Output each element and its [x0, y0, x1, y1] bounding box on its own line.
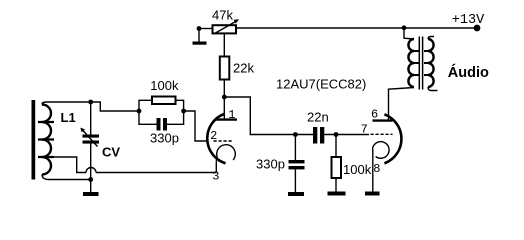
- svg-text:+13V: +13V: [452, 13, 485, 28]
- svg-text:2: 2: [210, 129, 217, 143]
- svg-text:6: 6: [371, 108, 378, 122]
- svg-text:3: 3: [212, 170, 219, 184]
- svg-text:22k: 22k: [233, 61, 254, 76]
- svg-text:1: 1: [228, 108, 235, 122]
- svg-text:L1: L1: [61, 110, 76, 125]
- svg-text:330p: 330p: [256, 156, 285, 171]
- svg-text:330p: 330p: [150, 131, 179, 146]
- svg-text:47k: 47k: [212, 7, 233, 22]
- svg-text:Áudio: Áudio: [448, 64, 489, 81]
- svg-text:8: 8: [373, 162, 380, 176]
- svg-text:22n: 22n: [307, 109, 329, 124]
- svg-text:CV: CV: [102, 145, 120, 160]
- svg-text:100k: 100k: [150, 78, 179, 93]
- svg-text:7: 7: [361, 122, 368, 136]
- svg-text:100k: 100k: [343, 162, 372, 177]
- svg-text:12AU7(ECC82): 12AU7(ECC82): [276, 77, 366, 92]
